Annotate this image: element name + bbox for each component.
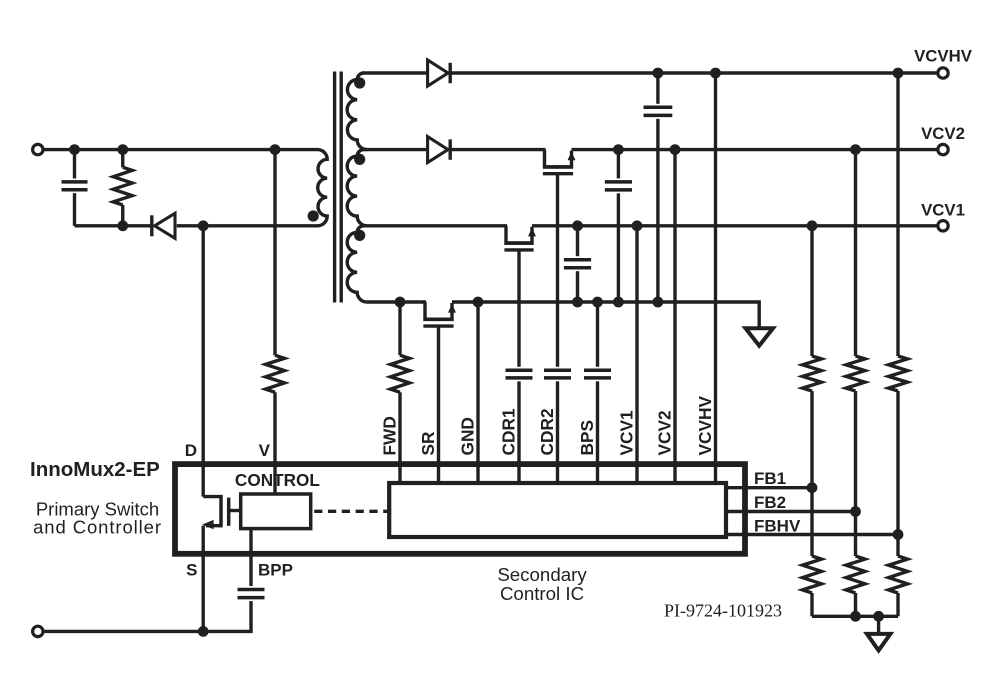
transformer core [335, 72, 342, 303]
primary polarity dot [308, 210, 319, 221]
diode D3 clamp (pointing left) [152, 213, 175, 238]
svg-text:and Controller: and Controller [33, 517, 162, 538]
junction VCV1 rail / VCV1 pin [632, 220, 643, 231]
junction bus / ground stub [873, 611, 884, 622]
junction input rail / R1 [117, 144, 128, 155]
svg-text:FWD: FWD [380, 416, 400, 455]
capacitor C1 clamp [62, 150, 88, 226]
svg-text:BPP: BPP [258, 561, 293, 580]
label FWD pin [380, 416, 400, 455]
input terminal (+) top [33, 144, 43, 154]
junction VCV2 rail / FB2 divider [850, 144, 861, 155]
wire FB2 divider lower [854, 593, 857, 616]
svg-text:InnoMux2-EP: InnoMux2-EP [30, 458, 160, 481]
wire S pin column [201, 553, 204, 631]
svg-text:D: D [185, 441, 197, 460]
diode D1 [428, 60, 451, 86]
secondary winding section 3 [347, 226, 367, 302]
capacitor C5 on VCVHV [644, 73, 673, 302]
svg-text:Control IC: Control IC [500, 583, 584, 604]
junction VCV1 rail / FB1 divider [807, 220, 818, 231]
junction input rail / V column [270, 144, 281, 155]
svg-text:VCV1: VCV1 [617, 410, 637, 456]
junction return rail / BPS [592, 297, 603, 308]
wire FB1 divider lower [810, 593, 813, 616]
junction clamp rail / R1 [117, 220, 128, 231]
label Secondary [497, 564, 587, 585]
transistor Q1 primary switch [202, 495, 241, 553]
resistor R8 lower FB2 [846, 556, 865, 593]
wire FBHV divider mid [896, 391, 899, 556]
wire FB2 divider mid [854, 391, 857, 556]
wire V pin column lower [273, 392, 276, 495]
dashed link control to secondary IC [314, 510, 389, 513]
secondary winding section 2 [347, 150, 367, 226]
svg-text:VCVHV: VCVHV [914, 47, 973, 66]
svg-text:FBHV: FBHV [754, 517, 801, 536]
capacitor C9 on CDR1 [506, 370, 533, 378]
label FB1 pin [754, 469, 786, 488]
ground divider bus [867, 634, 891, 651]
label PI-9724-101923 [664, 601, 782, 621]
junction VCVHV rail / C5 [653, 68, 664, 79]
wire FWD pin column [398, 392, 401, 483]
VCVHV output terminal [938, 68, 948, 78]
wire return rail right [452, 302, 759, 327]
wire V pin column upper [273, 150, 276, 356]
resistor R9 lower FBHV [889, 556, 908, 593]
wire BPS pin column [596, 381, 599, 483]
wire VCVHV rail left [362, 71, 428, 74]
junction return rail / C7 [572, 297, 583, 308]
wire BPP column lower [42, 601, 252, 631]
capacitor C6 on VCV2 [605, 150, 632, 302]
wire VCV2 pin column [673, 150, 676, 483]
wire D pin column [201, 226, 204, 497]
junction return rail / C6 [613, 297, 624, 308]
svg-text:VCV2: VCV2 [921, 124, 965, 143]
capacitor C10 on BPS [584, 370, 611, 378]
resistor R4 upper FB1 [803, 356, 822, 391]
label InnoMux2-EP [30, 458, 160, 481]
secondary polarity dot 3 [354, 230, 365, 241]
wire SR gate column [437, 327, 440, 483]
wire VCV2 rail left [362, 148, 428, 151]
junction bottom rail / S [198, 626, 209, 637]
label VCV1 output [921, 200, 965, 219]
label VCV1 pin [617, 410, 637, 456]
wire BPP column [249, 529, 252, 586]
junction FB2 node [850, 506, 861, 517]
ground secondary return [746, 328, 774, 346]
svg-text:FB1: FB1 [754, 469, 786, 488]
label GND pin [458, 417, 478, 455]
label V pin [259, 441, 271, 460]
wire divider ground bus [812, 615, 898, 618]
svg-text:Secondary: Secondary [497, 564, 587, 585]
wire return rail left [367, 300, 426, 303]
wire VCVHV rail right [451, 71, 939, 74]
wire VCV2 rail right [572, 148, 939, 151]
resistor R5 upper FB2 [846, 356, 865, 391]
wire VCVHV pin column [714, 73, 717, 483]
VCV1 output terminal [938, 221, 948, 231]
junction bus / FB2 leg [850, 611, 861, 622]
wire FBHV divider upper [896, 73, 899, 356]
label FBHV pin [754, 517, 801, 536]
secondary polarity dot 1 [354, 77, 365, 88]
wire FB1 divider mid [810, 391, 813, 556]
transistor Q4 SR FET return [423, 302, 456, 326]
svg-text:CONTROL: CONTROL [235, 470, 320, 490]
label and Controller [33, 517, 162, 538]
label VCV2 pin [655, 410, 675, 455]
wire VCV1 pin column [635, 226, 638, 483]
junction return rail / GND pin [473, 297, 484, 308]
svg-text:S: S [186, 561, 197, 580]
wire VCV2 rail mid [451, 148, 546, 151]
capacitor C2 BPP [238, 590, 265, 598]
wire VCV1 rail right [532, 224, 938, 227]
svg-text:CDR2: CDR2 [537, 408, 557, 455]
IC U2 Secondary Control IC [389, 483, 726, 537]
label VCV2 output [921, 124, 965, 143]
VCV2 output terminal [938, 144, 948, 154]
label CDR2 pin [537, 408, 557, 455]
junction FB1 node [807, 482, 818, 493]
label CONTROL [235, 470, 320, 490]
resistor R3 on FWD [391, 355, 410, 392]
resistor R1 clamp [113, 150, 132, 226]
svg-text:CDR1: CDR1 [499, 408, 519, 455]
junction clamp rail / D pin wire [198, 220, 209, 231]
wire clamp return rail [75, 224, 318, 227]
transistor Q3 SR FET VCV1 [504, 226, 536, 250]
wire input rail [44, 148, 318, 151]
label BPS pin [577, 420, 597, 456]
wire FB2 [726, 510, 856, 513]
label VCVHV output [914, 47, 973, 66]
junction VCV2 rail / VCV2 pin [670, 144, 681, 155]
secondary polarity dot 2 [354, 154, 365, 165]
svg-text:BPS: BPS [577, 420, 597, 456]
resistor R2 on V pin [266, 355, 285, 392]
label VCVHV pin [695, 395, 715, 455]
wire ground stub [877, 616, 880, 633]
junction VCVHV rail / VCVHV pin [710, 68, 721, 79]
label S pin [186, 561, 197, 580]
wire FB1 divider upper [810, 226, 813, 356]
capacitor C7 on VCV1 [564, 226, 591, 302]
svg-text:V: V [259, 441, 271, 460]
label FB2 pin [754, 493, 786, 512]
label D pin [185, 441, 197, 460]
junction VCVHV rail / FBHV divider [893, 68, 904, 79]
capacitor C8 on CDR2 [544, 370, 571, 378]
secondary winding section 1 [347, 73, 367, 150]
control block U1a [241, 494, 311, 529]
junction VCV1 rail / C7 [572, 220, 583, 231]
wire CDR2 pin column [556, 381, 559, 483]
svg-text:VCV2: VCV2 [655, 410, 675, 455]
junction input rail / C1 [69, 144, 80, 155]
label SR pin [418, 431, 438, 456]
wire GND pin column [476, 302, 479, 483]
resistor R6 upper FBHV [889, 356, 908, 391]
label Primary Switch [36, 499, 159, 520]
svg-text:FB2: FB2 [754, 493, 786, 512]
label CDR1 pin [499, 408, 519, 455]
svg-text:VCVHV: VCVHV [695, 395, 715, 455]
wire FWD column upper [398, 302, 401, 355]
junction return rail / C5 [653, 297, 664, 308]
wire CDR2 gate column [556, 175, 559, 367]
svg-text:PI-9724-101923: PI-9724-101923 [664, 601, 782, 621]
junction return rail / FWD [395, 297, 406, 308]
wire BPS column upper [596, 302, 599, 367]
wire FBHV divider lower [896, 593, 899, 616]
IC U1 InnoMux2-EP outline [175, 464, 745, 554]
svg-text:GND: GND [458, 417, 478, 455]
diode D2 [428, 137, 451, 163]
label Control IC [500, 583, 584, 604]
wire FB1 [726, 486, 812, 489]
junction VCV2 rail / C6 [613, 144, 624, 155]
resistor R7 lower FB1 [803, 556, 822, 593]
input terminal (-) bottom [33, 626, 43, 636]
wire CDR1 pin column [517, 381, 520, 483]
wire VCV1 rail left [362, 224, 507, 227]
svg-text:SR: SR [418, 431, 438, 456]
wire CDR1 gate column [517, 251, 520, 367]
transistor Q2 SR FET VCV2 [543, 150, 576, 174]
transformer primary winding [318, 150, 328, 226]
junction FBHV node [893, 529, 904, 540]
label BPP pin [258, 561, 293, 580]
wire FBHV [726, 533, 898, 536]
svg-text:VCV1: VCV1 [921, 200, 965, 219]
wire FB2 divider upper [854, 150, 857, 356]
